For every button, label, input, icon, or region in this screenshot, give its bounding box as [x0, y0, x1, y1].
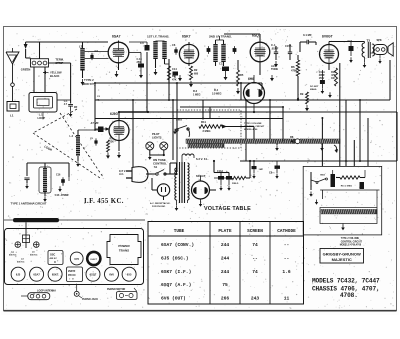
svg-text:6J5 (OSC.): 6J5 (OSC.): [161, 256, 189, 262]
svg-text:YELLOW: YELLOW: [50, 70, 62, 74]
svg-text:C16: C16: [56, 174, 61, 177]
svg-text:MAJESTIC: MAJESTIC: [332, 257, 352, 262]
svg-text:R2: R2: [194, 68, 198, 72]
svg-text:R.4: R.4: [214, 88, 219, 92]
svg-text:TYPE 2 VOLUME: TYPE 2 VOLUME: [244, 123, 262, 125]
svg-text:4708.: 4708.: [340, 292, 358, 299]
svg-text:22K: 22K: [110, 141, 115, 144]
svg-text:C4: C4: [140, 41, 144, 45]
svg-text:244: 244: [221, 256, 230, 262]
svg-text:243: 243: [251, 296, 260, 302]
svg-text:75: 75: [222, 282, 228, 288]
svg-text:ELECT: ELECT: [91, 259, 98, 261]
svg-text:R6: R6: [291, 65, 295, 69]
svg-text:L1: L1: [10, 114, 14, 118]
svg-text:2 MEG: 2 MEG: [203, 129, 211, 133]
svg-text:MODELS 7C432, 7C447: MODELS 7C432, 7C447: [312, 277, 380, 284]
svg-text:MF: MF: [74, 107, 78, 109]
svg-text:6SA7 (CONV.): 6SA7 (CONV.): [161, 242, 194, 248]
svg-text:.01MF: .01MF: [271, 47, 279, 51]
svg-text:O: O: [72, 278, 74, 280]
svg-text:600 KC: 600 KC: [30, 255, 38, 257]
svg-text:A.C. RECEPTACLE: A.C. RECEPTACLE: [150, 202, 170, 205]
svg-text:6V6GT: 6V6GT: [322, 35, 334, 39]
svg-text:TUBE: TUBE: [174, 229, 185, 234]
svg-text:LOOP ANTENNA: LOOP ANTENNA: [37, 290, 56, 293]
svg-text:0.1 MF: 0.1 MF: [303, 33, 312, 37]
svg-text:TYPE 2: TYPE 2: [84, 78, 94, 82]
svg-text:6SK7: 6SK7: [182, 35, 191, 39]
svg-text:470K: 470K: [291, 69, 297, 73]
svg-text:CONTROL: CONTROL: [153, 162, 167, 166]
svg-text:74: 74: [252, 269, 258, 275]
svg-text:C14: C14: [172, 67, 177, 71]
svg-text:C3: C3: [95, 49, 99, 53]
svg-text:2ND I.F. TRANS.: 2ND I.F. TRANS.: [209, 35, 232, 39]
svg-text:C8+: C8+: [269, 172, 274, 175]
svg-text:74: 74: [252, 242, 258, 248]
svg-text:PLATE: PLATE: [218, 229, 232, 234]
svg-text:TRANS: TRANS: [119, 249, 129, 253]
svg-text:PHONO MOTOR: PHONO MOTOR: [107, 288, 126, 291]
svg-text:6H6: 6H6: [248, 77, 254, 81]
svg-text:6.3 V. F.L.: 6.3 V. F.L.: [196, 157, 209, 161]
svg-text:6SQ7: 6SQ7: [90, 273, 97, 277]
svg-text:LIGHTS: LIGHTS: [152, 135, 162, 139]
svg-text:I.F. 455 KC.: I.F. 455 KC.: [84, 198, 124, 205]
svg-text:GREEN: GREEN: [21, 67, 31, 71]
svg-text:GRIGSBY-GRUNOW: GRIGSBY-GRUNOW: [323, 251, 361, 256]
svg-text:PILOT: PILOT: [152, 132, 160, 136]
svg-text:1ST I.F. TRANS.: 1ST I.F. TRANS.: [147, 35, 170, 39]
svg-text:455 KC: 455 KC: [68, 274, 76, 277]
svg-text:--: --: [252, 257, 258, 262]
svg-text:R11 2 MEG: R11 2 MEG: [341, 186, 353, 188]
svg-text:SW2: SW2: [320, 175, 326, 177]
svg-text:VOLTAGE TABLE: VOLTAGE TABLE: [204, 206, 251, 212]
svg-text:TONE: TONE: [271, 67, 278, 71]
svg-text:244: 244: [221, 242, 230, 248]
svg-text:6SQ7 (A.F.): 6SQ7 (A.F.): [161, 282, 191, 288]
svg-text:47K: 47K: [172, 79, 177, 82]
svg-text:6Y6: 6Y6: [74, 257, 79, 261]
svg-text:DO NOT: DO NOT: [310, 86, 319, 88]
svg-text:R5: R5: [240, 73, 244, 77]
svg-text:6V6: 6V6: [109, 273, 114, 277]
svg-text:C15A: C15A: [285, 44, 292, 48]
svg-text:244: 244: [221, 269, 230, 275]
svg-text:3.3 MEG: 3.3 MEG: [212, 93, 222, 96]
svg-text:MODEL 4706: MODEL 4706: [244, 128, 258, 131]
svg-text:R.3: R.3: [193, 89, 198, 93]
svg-text:6SA7: 6SA7: [112, 35, 121, 39]
svg-text:R11: R11: [201, 120, 206, 124]
svg-text:OSC: OSC: [50, 254, 55, 257]
svg-text:600 KC: 600 KC: [17, 262, 25, 264]
svg-text:150V: 150V: [319, 77, 325, 80]
svg-text:.1MF: .1MF: [258, 169, 264, 171]
svg-text:2ND IF: 2ND IF: [68, 271, 76, 273]
svg-text:TYPE 1 ANTENNA CIRCUIT: TYPE 1 ANTENNA CIRCUIT: [11, 202, 47, 206]
svg-text:6SA7: 6SA7: [33, 273, 40, 277]
svg-text:MEAS.: MEAS.: [310, 88, 317, 91]
svg-text:TERM.: TERM.: [55, 58, 64, 62]
svg-text:A.C.: A.C.: [119, 173, 124, 176]
svg-text:--: --: [284, 257, 290, 262]
svg-text:BLACK: BLACK: [50, 74, 59, 78]
svg-text:--: --: [284, 243, 290, 248]
svg-text:PHONO JACK: PHONO JACK: [82, 298, 98, 301]
svg-text:S1: S1: [154, 165, 158, 169]
svg-text:455 KC: 455 KC: [50, 257, 58, 260]
svg-text:C17: C17: [348, 40, 353, 43]
svg-text:CATHODE: CATHODE: [277, 229, 296, 234]
svg-text:CONTROL CIRCUIT: CONTROL CIRCUIT: [341, 241, 363, 243]
svg-text:250: 250: [137, 61, 142, 64]
svg-text:FIELD: FIELD: [232, 183, 239, 185]
svg-text:6V6 (OUT): 6V6 (OUT): [161, 296, 186, 302]
svg-text:POWER: POWER: [118, 244, 130, 248]
svg-text:TYPE 2 VOLUME: TYPE 2 VOLUME: [341, 238, 360, 240]
svg-text:C6: C6: [172, 43, 176, 47]
svg-text:266: 266: [221, 296, 230, 302]
svg-text:SCREEN: SCREEN: [247, 229, 263, 234]
svg-text:1.6: 1.6: [282, 269, 291, 275]
svg-text:R9: R9: [300, 92, 304, 96]
svg-text:R8: R8: [290, 135, 294, 139]
svg-text:CONTROL CIRCUIT: CONTROL CIRCUIT: [244, 126, 265, 128]
svg-text:C16 .47MMF: C16 .47MMF: [55, 194, 69, 197]
svg-text:680: 680: [194, 73, 199, 76]
svg-text:C13: C13: [219, 63, 224, 66]
svg-text:1 MEG: 1 MEG: [193, 94, 201, 97]
svg-text:T3: T3: [367, 38, 371, 42]
svg-text:FOR PHONO: FOR PHONO: [152, 206, 166, 208]
svg-text:6J5: 6J5: [16, 273, 21, 277]
svg-text:6J5GT: 6J5GT: [110, 112, 120, 116]
svg-text:MODELS 4706,4708: MODELS 4706,4708: [340, 244, 362, 247]
svg-text:11: 11: [284, 296, 290, 302]
svg-text:C-1: C-1: [271, 43, 276, 47]
svg-text:LOOP: LOOP: [38, 116, 46, 120]
svg-text:6X5: 6X5: [127, 273, 132, 277]
svg-text:600 KC: 600 KC: [9, 255, 17, 257]
svg-text:SPK: SPK: [377, 39, 382, 42]
svg-text:O: O: [54, 261, 56, 264]
svg-text:L.1: L.1: [39, 113, 43, 117]
svg-text:6SK7: 6SK7: [52, 273, 59, 277]
svg-text:6SK7 (I.F.): 6SK7 (I.F.): [161, 269, 191, 275]
